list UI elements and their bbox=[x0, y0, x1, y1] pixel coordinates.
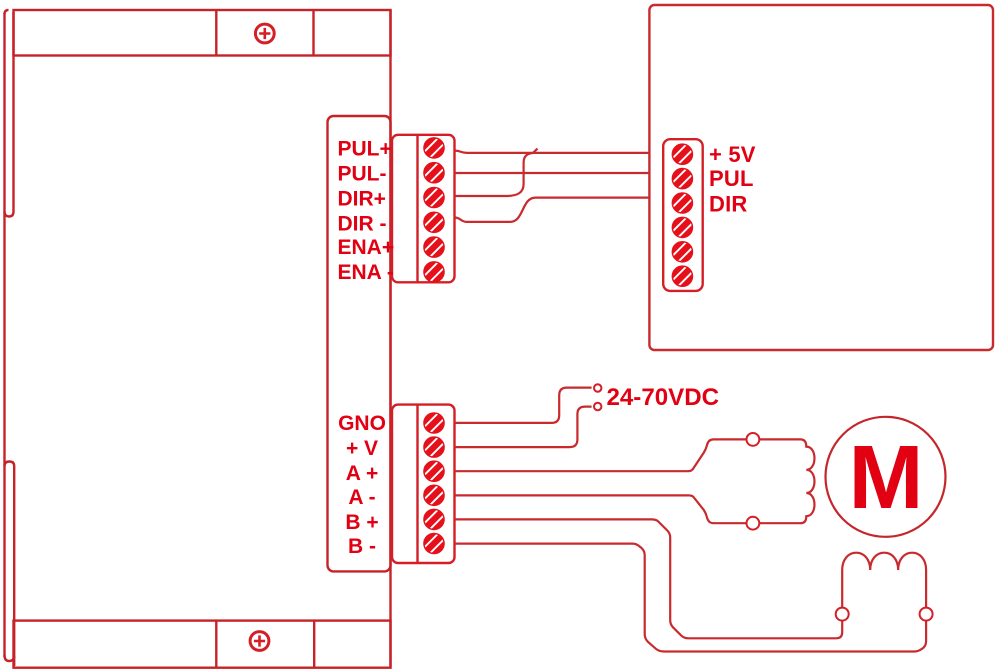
svg-text:A +: A + bbox=[346, 462, 378, 485]
svg-text:A -: A - bbox=[348, 486, 375, 509]
svg-text:DIR: DIR bbox=[709, 192, 748, 217]
svg-text:B -: B - bbox=[348, 535, 376, 558]
svg-text:PUL: PUL bbox=[709, 166, 754, 191]
svg-text:DIR+: DIR+ bbox=[338, 187, 386, 210]
svg-text:PUL-: PUL- bbox=[338, 162, 387, 185]
svg-text:ENA -: ENA - bbox=[338, 261, 394, 284]
svg-text:M: M bbox=[849, 428, 924, 528]
svg-text:B +: B + bbox=[345, 511, 378, 534]
svg-text:24-70VDC: 24-70VDC bbox=[607, 384, 720, 411]
svg-text:+ V: + V bbox=[346, 437, 378, 460]
svg-text:+ 5V: + 5V bbox=[709, 142, 756, 167]
svg-text:ENA+: ENA+ bbox=[338, 236, 395, 259]
svg-text:PUL+: PUL+ bbox=[338, 137, 392, 160]
svg-text:GNO: GNO bbox=[338, 412, 386, 435]
svg-text:DIR -: DIR - bbox=[338, 212, 387, 235]
